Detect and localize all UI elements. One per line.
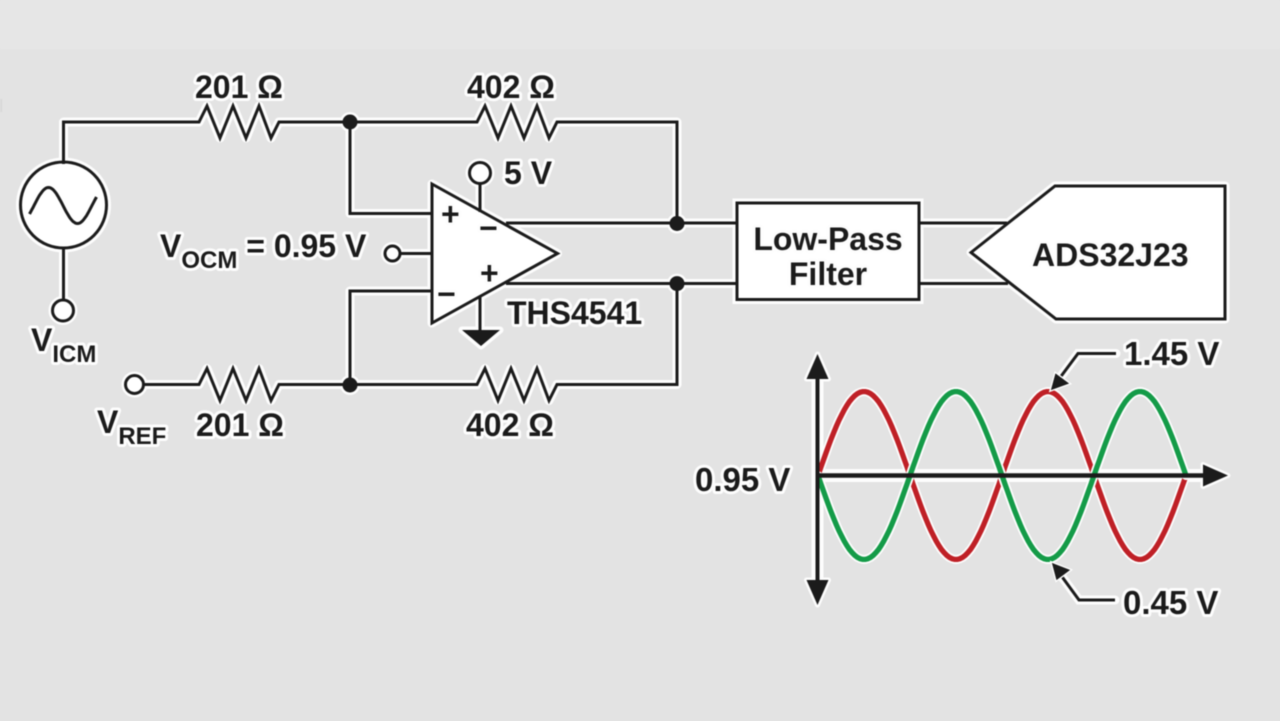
waveform vertical axis — [807, 354, 829, 605]
svg-text:THS4541: THS4541 — [507, 295, 642, 331]
wire op-amp output- to filter — [506, 222, 737, 225]
svg-text:0.95 V: 0.95 V — [695, 461, 790, 498]
svg-text:0.45 V: 0.45 V — [1123, 584, 1218, 621]
wire clipped at left edge (faint) — [0, 99, 2, 112]
terminal VICM — [53, 300, 74, 321]
svg-text:201 Ω: 201 Ω — [196, 407, 284, 443]
halo layer (white outlines) — [64, 106, 1009, 401]
waveform horizontal axis — [818, 465, 1229, 487]
ADC U2 ADS32J23 block — [971, 186, 1225, 319]
wire filter to ADC bottom — [919, 282, 1008, 285]
wire noninverting input branch — [350, 122, 432, 214]
wire op-amp output+ to filter — [506, 282, 737, 285]
node junction output- — [670, 216, 685, 231]
svg-text:402 Ω: 402 Ω — [466, 407, 554, 443]
wire bottom rail with 201 and 402 ohm resistors — [144, 284, 677, 401]
waveform red output sine — [818, 392, 1186, 560]
wire 5V supply stem — [479, 183, 482, 212]
svg-text:201 Ω: 201 Ω — [195, 69, 283, 105]
wire source to Vicm terminal — [62, 247, 65, 301]
node junction output+ — [670, 276, 685, 291]
voltage source VICM sine generator — [21, 162, 107, 248]
terminal VREF — [126, 376, 144, 394]
wire top rail with 201 and 402 ohm resistors — [64, 106, 678, 224]
waveform green output sine — [818, 392, 1186, 560]
node junction top-left — [343, 115, 358, 130]
svg-text:Low-Pass: Low-Pass — [753, 221, 902, 257]
op-amp U1 THS4541 triangle — [432, 184, 558, 323]
svg-text:+: + — [480, 255, 499, 291]
terminal VOCM — [385, 246, 400, 261]
wire inverting input branch — [350, 291, 432, 385]
svg-text:402 Ω: 402 Ω — [467, 69, 555, 105]
svg-text:Filter: Filter — [789, 256, 867, 292]
ground symbol — [462, 330, 500, 346]
terminal 5V supply — [470, 163, 491, 184]
wire ground stem — [479, 296, 482, 331]
svg-text:5 V: 5 V — [504, 155, 553, 191]
svg-text:−: − — [479, 210, 498, 246]
callout leader 1.45V — [1051, 354, 1116, 391]
callout leader 0.45V — [1052, 563, 1115, 600]
svg-text:−: − — [437, 276, 456, 312]
svg-text:1.45 V: 1.45 V — [1124, 335, 1219, 372]
node junction bottom-left — [343, 378, 358, 393]
low-pass filter block — [737, 203, 919, 300]
svg-text:ADS32J23: ADS32J23 — [1032, 237, 1189, 273]
wire filter to ADC top — [919, 222, 1007, 225]
svg-text:+: + — [441, 196, 460, 232]
wire Vocm terminal to op-amp — [400, 252, 433, 255]
